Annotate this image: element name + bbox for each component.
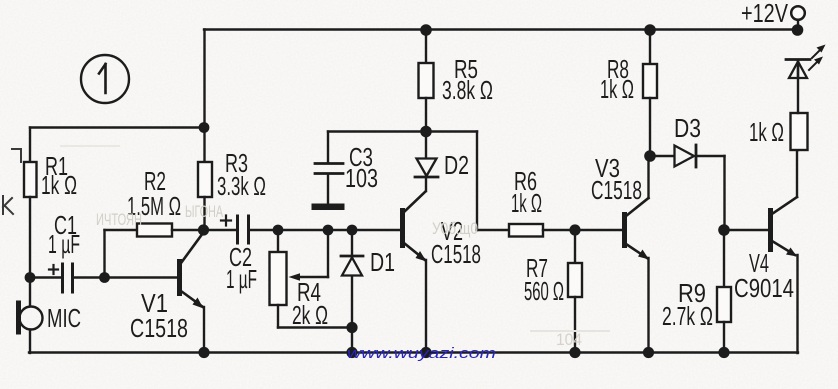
svg-text:ЫГОНА: ЫГОНА <box>185 202 223 221</box>
svg-text:www.wuyazi.com: www.wuyazi.com <box>347 345 496 362</box>
scan bleed-through ghost marks <box>60 145 610 349</box>
circle tag 1 <box>81 55 129 103</box>
transistor V2 <box>400 192 481 354</box>
resistor R7 <box>524 230 582 353</box>
node rail D1 <box>346 347 357 358</box>
node rail R7 <box>569 347 580 358</box>
node below R5 <box>420 126 432 138</box>
svg-text:560 Ω: 560 Ω <box>524 276 564 306</box>
wire left drop from top rail <box>203 30 205 128</box>
node rail V3 emitter <box>643 347 654 358</box>
node rail V1 emitter <box>198 347 209 358</box>
node V3 collector / D3 <box>644 150 656 162</box>
resistor R1 <box>24 128 77 307</box>
wire upper-left horizontal <box>30 126 204 128</box>
svg-text:MIC: MIC <box>47 303 81 333</box>
left edge stray marks <box>3 149 21 214</box>
capacitor C2 <box>203 216 257 295</box>
svg-text:C1518: C1518 <box>591 175 642 205</box>
resistor R3 <box>198 128 266 231</box>
svg-text:+12V: +12V <box>741 0 788 28</box>
resistor R6 <box>509 166 622 237</box>
svg-text:D2: D2 <box>444 150 469 180</box>
svg-text:D1: D1 <box>370 247 395 277</box>
resistor R9 <box>662 230 731 353</box>
svg-text:3.3k Ω: 3.3k Ω <box>217 171 266 201</box>
capacitor C3 <box>312 132 427 211</box>
transistor V3 <box>591 153 649 353</box>
resistor R5 <box>419 24 494 131</box>
node R4 top <box>273 225 284 236</box>
wire D1 junction to ground rail <box>351 328 353 354</box>
wire C1 to V1 base <box>73 276 177 278</box>
diode D2 <box>415 132 469 192</box>
wire node below R5 to R6 <box>426 132 509 231</box>
wire bottom ground rail <box>29 351 798 353</box>
svg-text:2.7k Ω: 2.7k Ω <box>662 301 713 331</box>
node V4 base / R9 top <box>718 224 730 236</box>
svg-text:103: 103 <box>345 163 378 193</box>
svg-text:3.8k Ω: 3.8k Ω <box>442 75 493 105</box>
resistor R2 <box>105 166 204 278</box>
svg-text:2k Ω: 2k Ω <box>292 300 328 330</box>
node rail V2 emitter <box>420 347 431 358</box>
svg-text:C1518: C1518 <box>431 239 481 269</box>
svg-text:1k Ω: 1k Ω <box>511 188 542 218</box>
wire top rail <box>204 28 798 30</box>
node base-coupling junction left <box>25 272 36 283</box>
svg-text:C9014: C9014 <box>734 273 794 303</box>
capacitor C1 <box>30 210 80 292</box>
diode D1 <box>341 230 395 328</box>
wire C2 to V2 base <box>249 229 400 231</box>
resistor R8 <box>600 24 657 156</box>
svg-text:C1518: C1518 <box>130 313 188 343</box>
node rail R9 <box>718 347 729 358</box>
node R4 wiper top <box>323 225 334 236</box>
node D1 top <box>347 225 358 236</box>
potentiometer R4 <box>270 230 353 330</box>
svg-text:ИЧТОЯН: ИЧТОЯН <box>96 210 142 229</box>
transistor V4 <box>724 150 798 353</box>
svg-text:1 µF: 1 µF <box>48 229 80 259</box>
svg-text:1k Ω: 1k Ω <box>749 117 784 147</box>
node R7 top <box>569 224 580 235</box>
LED <box>786 45 826 114</box>
transistor V1 <box>130 233 204 353</box>
node R2 branch junction <box>99 272 110 283</box>
node collector of V1 / R3 bottom <box>198 224 209 235</box>
svg-text:1k Ω: 1k Ω <box>600 74 634 104</box>
node junction top of R3 <box>199 122 210 133</box>
node D1/R4 bottom junction <box>346 322 357 333</box>
microphone MIC <box>19 303 82 353</box>
svg-text:1k Ω: 1k Ω <box>41 170 77 200</box>
svg-text:У0б‚щ0: У0б‚щ0 <box>432 219 478 238</box>
svg-text:1 µF: 1 µF <box>226 264 257 294</box>
diode D3 <box>650 113 725 230</box>
svg-text:104: 104 <box>556 330 582 349</box>
resistor 1k (LED series) <box>749 113 808 150</box>
+12V terminal <box>741 0 805 36</box>
svg-text:D3: D3 <box>674 113 701 143</box>
